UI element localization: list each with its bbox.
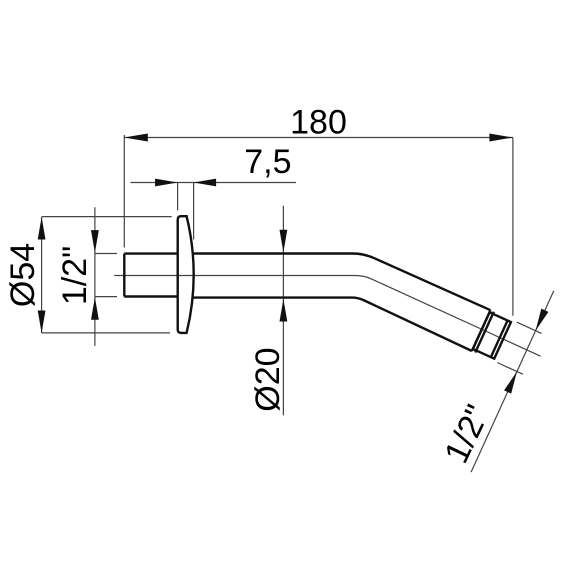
svg-text:7,5: 7,5 — [244, 143, 291, 181]
svg-text:180: 180 — [290, 104, 347, 142]
svg-text:Ø54: Ø54 — [4, 243, 42, 307]
svg-text:1/2": 1/2" — [56, 246, 94, 305]
svg-text:Ø20: Ø20 — [249, 347, 287, 411]
